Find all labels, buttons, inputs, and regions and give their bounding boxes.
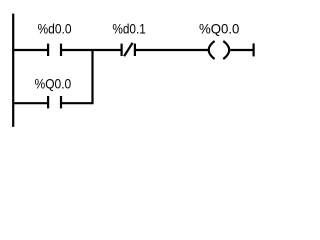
wire contact %d0.0 to contact %d0.1 through branch junction [61,49,122,51]
wire coil %Q0.0 to right rail [230,49,253,51]
contact %d0.1 NC slash [124,43,133,56]
right rail end bar [253,43,255,56]
branch vertical wire (junction down to parallel rung, corner to contact) [61,50,93,103]
wire rail to parallel contact %Q0.0 [13,102,47,104]
parallel contact %Q0.0 left bar [47,96,49,108]
contact %d0.1 left bar [120,44,122,56]
svg-text:%d0.0: %d0.0 [38,21,72,37]
wire rail to contact %d0.0 [13,49,47,51]
coil %Q0.0 right parenthesis [223,41,229,59]
svg-text:%Q0.0: %Q0.0 [199,21,239,37]
svg-text:%Q0.0: %Q0.0 [35,76,72,92]
parallel contact %Q0.0 right bar [60,96,62,108]
contact %d0.1 right bar [134,44,136,56]
contact %d0.0 left bar [47,44,49,56]
coil %Q0.0 left parenthesis [209,41,215,59]
wire contact %d0.1 to coil %Q0.0 [135,49,209,51]
contact %d0.0 right bar [60,44,62,56]
left power rail [12,14,14,127]
svg-text:%d0.1: %d0.1 [112,21,146,37]
